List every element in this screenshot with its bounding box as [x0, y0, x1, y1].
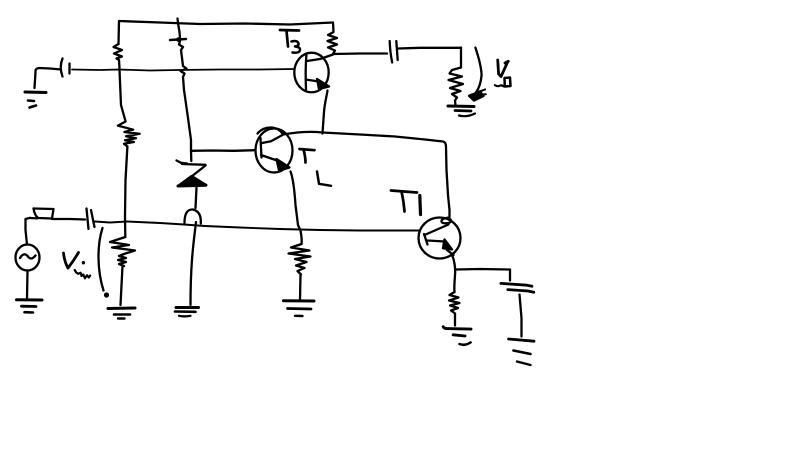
label Vo [498, 60, 509, 77]
wire bowl to C2 [30, 218, 85, 220]
wire C1 to left ground [35, 68, 62, 88]
zener diode D1 [177, 161, 188, 164]
transistor T2 [256, 129, 293, 173]
transistor T1 [419, 218, 461, 259]
resistor R4 (T3 collector) [328, 23, 338, 55]
wire left column down to input node [125, 147, 127, 238]
resistor R1 [114, 44, 123, 69]
bracket arrow near Vin [98, 228, 103, 291]
wire T1 emitter down [452, 254, 456, 292]
label T3 [280, 29, 299, 32]
ground (below source) [26, 271, 29, 299]
capacitor C4 [501, 283, 532, 286]
source Vin circle [16, 245, 40, 271]
wire R3 to ground [121, 266, 123, 305]
capacitor C3 [390, 41, 393, 63]
label T2 [300, 149, 315, 150]
wire bias branch from rail with tick [176, 19, 179, 24]
wire T2 emitter down [291, 172, 302, 245]
wire zener to hop [196, 188, 197, 209]
wire C3 to load [399, 47, 462, 50]
wire left column stub from rail [117, 21, 120, 44]
wire T3 emitter down to long line [323, 91, 328, 134]
wire zener node to T2 base [191, 149, 255, 152]
transistor T3 [294, 53, 328, 93]
ground (below R3) [108, 307, 135, 311]
wire R6 to ground [454, 314, 456, 326]
wire source up to input line [26, 218, 31, 245]
ground (below RL) [448, 105, 474, 109]
ground (top-left) [25, 91, 46, 95]
bowl shape on input wire [34, 207, 54, 210]
wire C4 down [520, 295, 522, 337]
wire top supply rail [119, 21, 333, 25]
ground (below R6) [443, 327, 471, 329]
resistor RL (load) [449, 68, 464, 106]
wire hop over input line [185, 209, 201, 223]
wire R5 to ground [299, 275, 302, 300]
node cross mark [170, 39, 186, 40]
wire hop to ground [191, 222, 197, 305]
resistor R2 [118, 70, 140, 147]
label T1 [391, 191, 417, 193]
wire mid horizontal from C1 to T3 base [72, 69, 294, 71]
wire emitter node right to C4 [456, 268, 510, 271]
resistor R3 [110, 237, 135, 266]
ground (below zener) [176, 306, 199, 309]
wire cross mark down to zener top node [179, 41, 191, 151]
label Vin [64, 253, 79, 269]
wire zener node down [190, 151, 193, 161]
wire input node long run to T1 base [95, 222, 419, 231]
wire collector node to C3 [333, 52, 387, 55]
wire corner down to RL [460, 48, 462, 68]
ground (below C4) [509, 339, 535, 341]
ground (below R5) [284, 299, 315, 302]
wire long collector line T2/T3/T1 [283, 132, 450, 217]
capacitor C2 [87, 209, 89, 230]
capacitor C1 [61, 59, 63, 77]
resistor R5 (T2 emitter) [289, 244, 311, 275]
resistor R6 (T1 emitter) [449, 292, 460, 314]
arrow to Vo node [475, 48, 481, 93]
